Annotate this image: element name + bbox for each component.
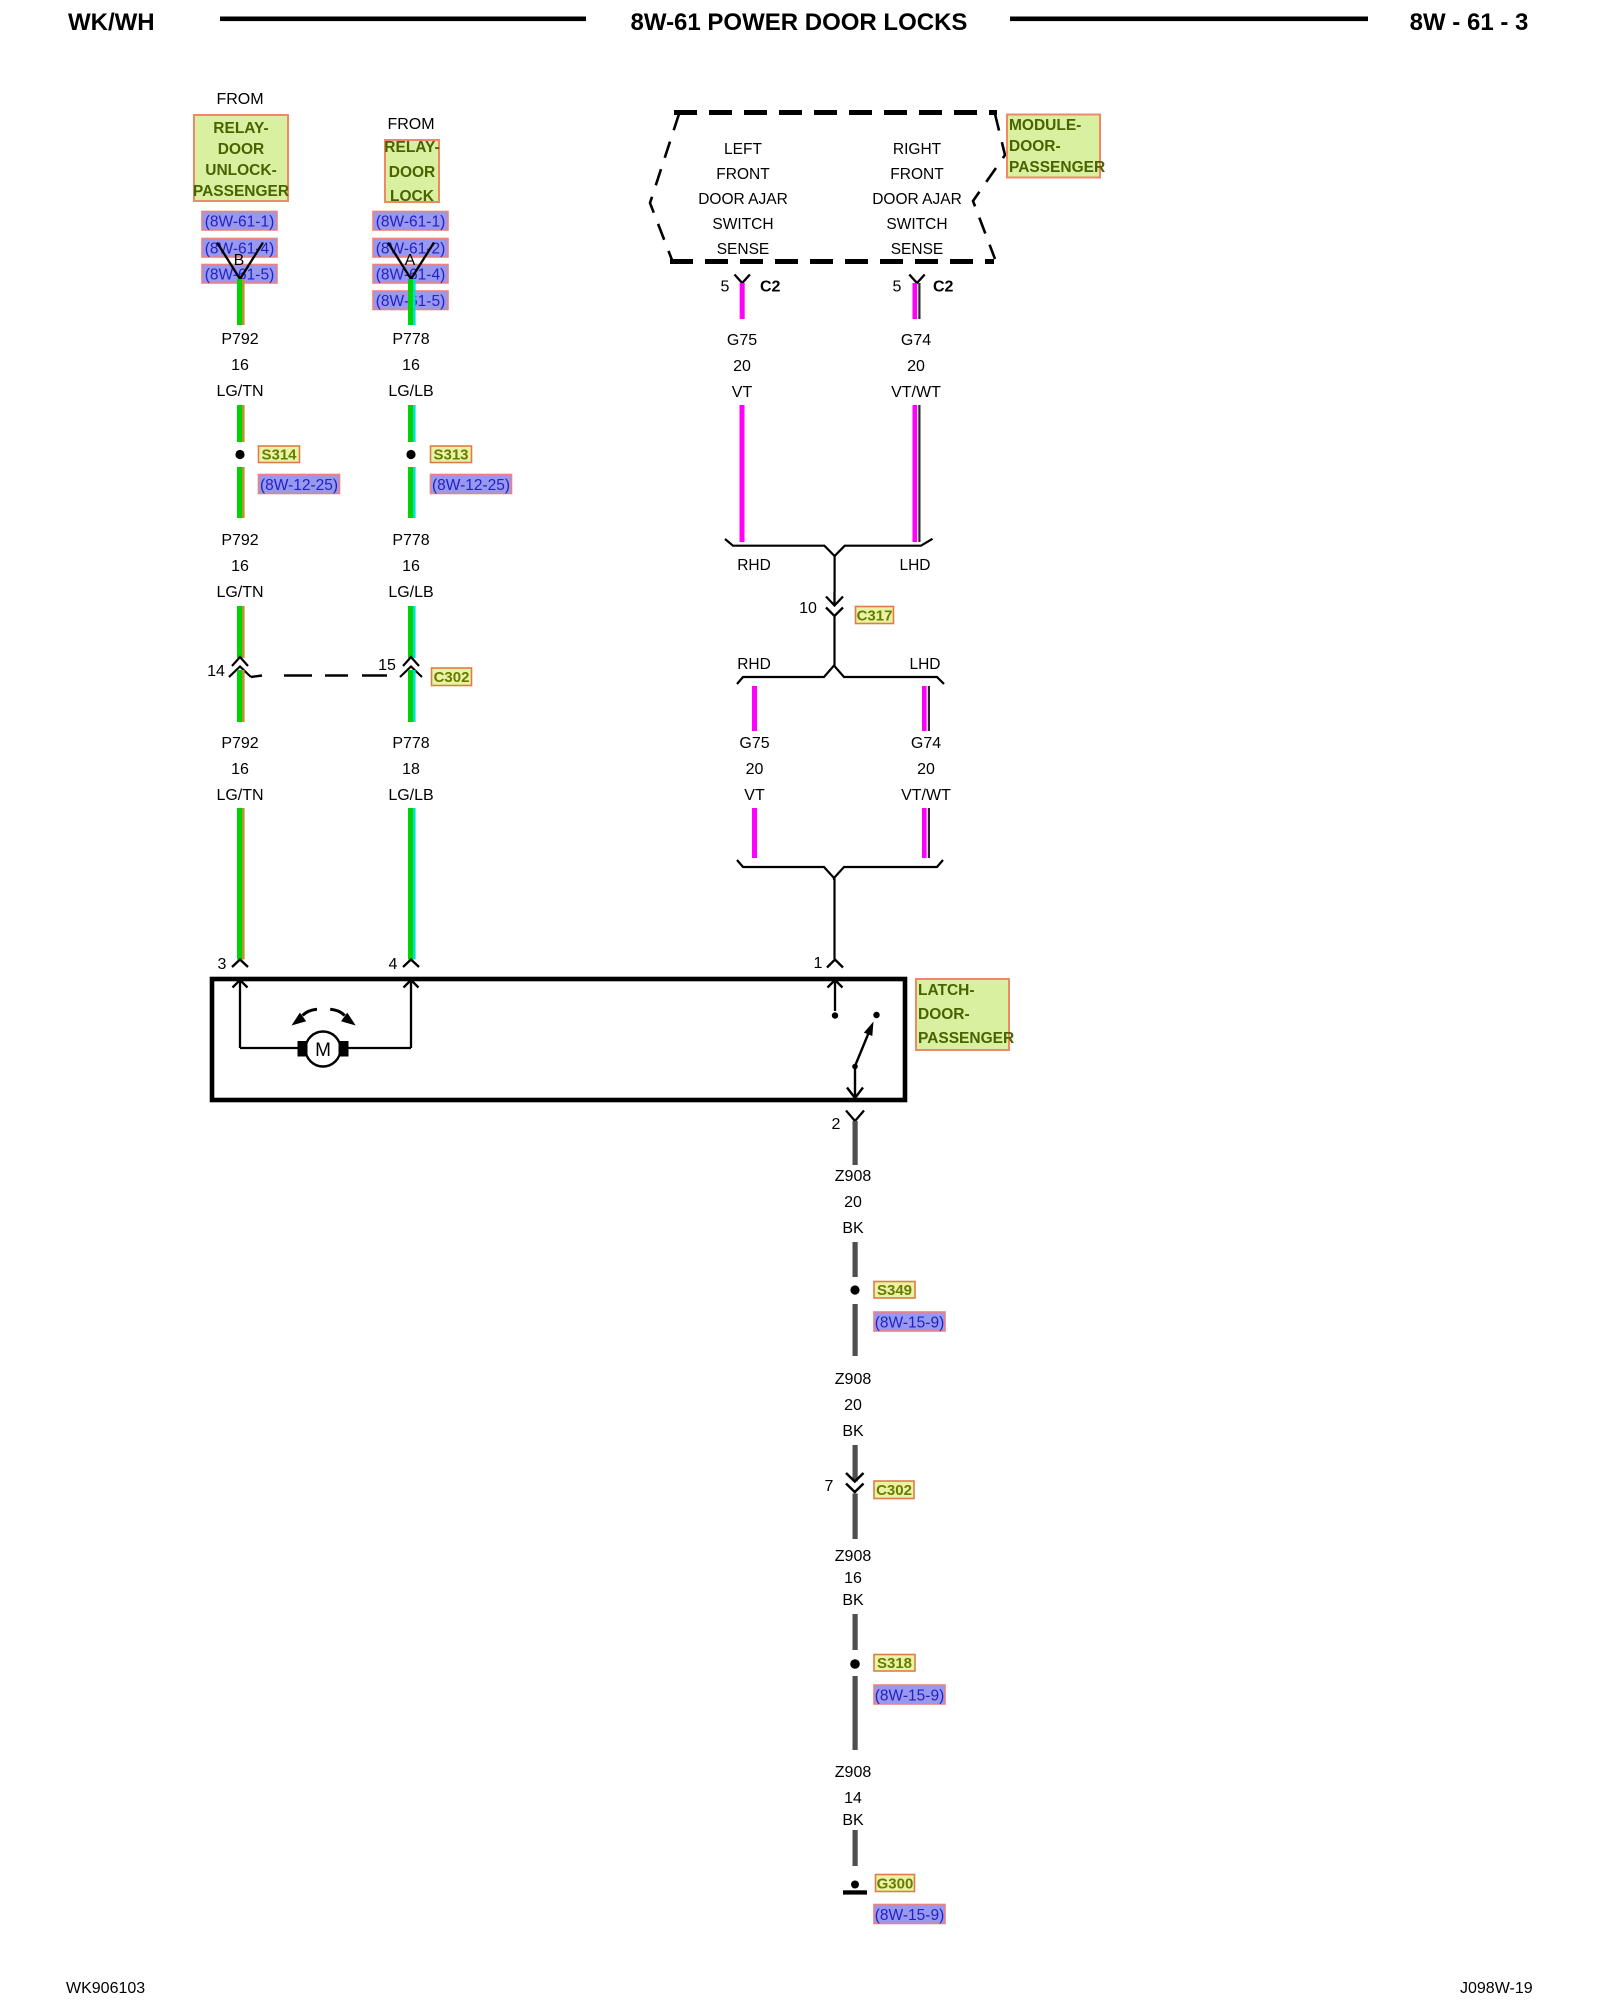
reference label (8W-12-25) A: [259, 475, 340, 495]
svg-text:RHD: RHD: [737, 656, 771, 673]
wire label G75 20 VT (1): [727, 332, 757, 401]
wire Z908 BK segment 2: [853, 1242, 858, 1277]
svg-text:10: 10: [799, 600, 817, 617]
off-page connector V with letter A: [388, 243, 434, 280]
svg-text:B: B: [234, 252, 245, 269]
svg-text:J098W-19: J098W-19: [1460, 1980, 1533, 1997]
svg-text:SENSE: SENSE: [891, 241, 944, 258]
svg-text:5: 5: [721, 279, 730, 296]
svg-text:(8W-61-1): (8W-61-1): [376, 214, 445, 231]
svg-text:VT: VT: [744, 787, 765, 804]
wire label P778 16 LG/LB (1): [388, 331, 433, 400]
svg-text:LHD: LHD: [899, 557, 930, 574]
reference label (8W-61-4) A: [202, 239, 277, 258]
reference label (8W-61-5) B: [373, 291, 448, 310]
svg-text:DOOR: DOOR: [389, 164, 436, 181]
svg-text:P792: P792: [221, 532, 258, 549]
wire G75 VT segment 4: [752, 808, 757, 858]
svg-text:P792: P792: [221, 735, 258, 752]
svg-text:C317: C317: [857, 608, 893, 625]
component box RELAY-DOOR-UNLOCK-PASSENGER: [193, 115, 289, 201]
reference label (8W-61-2) B: [373, 239, 448, 258]
svg-text:15: 15: [378, 657, 396, 674]
wire P792 LG/TN segment 6: [237, 808, 245, 960]
bus split brace lower (RHD/LHD): [737, 666, 944, 685]
svg-text:4: 4: [389, 956, 398, 973]
svg-text:20: 20: [746, 761, 764, 778]
svg-text:BK: BK: [842, 1220, 864, 1237]
svg-text:LHD: LHD: [909, 656, 940, 673]
svg-text:7: 7: [825, 1478, 834, 1495]
svg-text:FRONT: FRONT: [890, 166, 944, 183]
svg-text:20: 20: [844, 1194, 862, 1211]
svg-text:C2: C2: [933, 279, 954, 296]
svg-text:(8W-12-25): (8W-12-25): [260, 477, 338, 494]
svg-text:DOOR AJAR: DOOR AJAR: [872, 191, 962, 208]
svg-text:MODULE-: MODULE-: [1009, 117, 1081, 134]
latch pin 2 connector Y: [832, 1111, 864, 1134]
reference label (8W-15-9) 3: [874, 1905, 945, 1925]
wire label P792 16 LG/TN (3): [216, 735, 263, 804]
connector label C302 (left): [432, 668, 472, 686]
svg-text:UNLOCK-: UNLOCK-: [205, 162, 276, 179]
wire G74 VT/WT segment 3: [922, 686, 930, 731]
wire G74 VT/WT segment 1: [913, 283, 921, 319]
ground label G300: [876, 1875, 915, 1893]
reference label (8W-12-25) B: [431, 475, 512, 495]
wire P778 LG/LB segment 3: [408, 467, 416, 518]
svg-text:FROM: FROM: [216, 91, 263, 108]
svg-text:LG/LB: LG/LB: [388, 584, 433, 601]
svg-text:20: 20: [907, 358, 925, 375]
svg-text:16: 16: [231, 558, 249, 575]
wire P778 LG/LB segment 6: [408, 808, 416, 960]
latch internal arrow pin 4: [404, 980, 419, 1048]
svg-text:LG/TN: LG/TN: [216, 584, 263, 601]
wire Z908 BK segment 7: [853, 1676, 858, 1750]
svg-text:G74: G74: [911, 735, 941, 752]
latch internal arrow pin 3: [233, 980, 248, 1048]
svg-text:SWITCH: SWITCH: [712, 216, 773, 233]
module box right dashed edge: [973, 114, 1005, 259]
wire Z908 BK segment 5: [853, 1494, 858, 1540]
svg-text:(8W-15-9): (8W-15-9): [875, 1315, 944, 1332]
svg-text:DOOR AJAR: DOOR AJAR: [698, 191, 788, 208]
component box latch outline: [212, 979, 905, 1100]
reference label (8W-61-4) B: [373, 265, 448, 284]
svg-text:RELAY-: RELAY-: [384, 139, 439, 156]
splice label S318: [874, 1655, 915, 1673]
motor M symbol: [298, 1032, 349, 1067]
wire label Z908 20 BK (2): [835, 1371, 872, 1440]
latch pin 1 connector chevron: [814, 955, 843, 972]
wire single to latch pin 1: [833, 878, 836, 959]
splice label S314: [259, 446, 300, 464]
svg-text:16: 16: [402, 558, 420, 575]
latch internal arrow pin 1: [828, 980, 843, 1011]
ground G300 symbol: [843, 1881, 867, 1895]
wire P778 LG/LB segment 1: [408, 279, 416, 325]
header rule left: [220, 17, 586, 22]
wire label P792 16 LG/TN (2): [216, 532, 263, 601]
switch contact node dot left: [832, 1012, 838, 1018]
svg-text:16: 16: [402, 357, 420, 374]
svg-text:VT/WT: VT/WT: [891, 384, 941, 401]
svg-text:1: 1: [814, 955, 823, 972]
svg-text:LEFT: LEFT: [724, 141, 762, 158]
wire P778 LG/LB segment 5: [408, 670, 416, 722]
svg-text:DOOR-: DOOR-: [918, 1006, 970, 1023]
splice node S349 dot: [850, 1285, 859, 1294]
connector label C317: [856, 607, 894, 625]
svg-text:G74: G74: [901, 332, 931, 349]
splice node S313 dot: [406, 450, 415, 459]
svg-text:14: 14: [207, 663, 225, 680]
wire P792 LG/TN segment 1: [237, 279, 245, 325]
svg-text:M: M: [315, 1040, 331, 1061]
module pin 5 C2 connector (left): [721, 275, 781, 296]
module pin name LEFT FRONT DOOR AJAR SWITCH SENSE: [698, 141, 788, 258]
svg-text:BK: BK: [842, 1812, 864, 1829]
connector C317 pin 10 symbol: [799, 592, 843, 617]
splice node S318 dot: [850, 1659, 860, 1669]
svg-text:C302: C302: [434, 669, 470, 686]
wire P792 LG/TN segment 3: [237, 467, 245, 518]
wire Z908 BK segment 6: [853, 1614, 858, 1650]
wire label P778 18 LG/LB (3): [388, 735, 433, 804]
svg-text:C302: C302: [876, 1482, 912, 1499]
svg-text:LOCK: LOCK: [390, 188, 435, 205]
wire label G75 20 VT (2): [739, 735, 769, 804]
svg-text:18: 18: [402, 761, 420, 778]
svg-text:S313: S313: [433, 447, 468, 464]
wire motor leads: [240, 1047, 411, 1049]
svg-text:LG/TN: LG/TN: [216, 383, 263, 400]
module pin 5 C2 connector (right): [893, 275, 954, 296]
reference label (8W-61-1) A: [202, 212, 277, 231]
wire Z908 BK segment 8: [853, 1830, 858, 1866]
svg-text:2: 2: [832, 1116, 841, 1133]
component label LATCH-DOOR-PASSENGER: [916, 979, 1014, 1050]
wire P792 LG/TN segment 2: [237, 405, 245, 442]
connector C302 pin 14 symbol: [207, 657, 387, 680]
svg-text:20: 20: [733, 358, 751, 375]
wire P778 LG/LB segment 4: [408, 606, 416, 658]
wire label P778 16 LG/LB (2): [388, 532, 433, 601]
wire single from C317: [833, 616, 835, 666]
splice label S313: [431, 446, 472, 464]
svg-text:16: 16: [231, 761, 249, 778]
wire label Z908 16 BK: [835, 1548, 872, 1609]
svg-text:BK: BK: [842, 1592, 864, 1609]
header rule right: [1010, 17, 1368, 22]
svg-text:FROM: FROM: [387, 116, 434, 133]
svg-text:RIGHT: RIGHT: [893, 141, 942, 158]
svg-text:G75: G75: [739, 735, 769, 752]
wire G74 VT/WT segment 2: [913, 405, 921, 542]
wire label G74 20 VT/WT (1): [891, 332, 941, 401]
svg-text:WK/WH: WK/WH: [68, 9, 155, 36]
svg-text:BK: BK: [842, 1423, 864, 1440]
svg-text:FRONT: FRONT: [716, 166, 770, 183]
svg-text:16: 16: [231, 357, 249, 374]
svg-text:RHD: RHD: [737, 557, 771, 574]
svg-text:Z908: Z908: [835, 1168, 872, 1185]
off-page connector V with letter B: [217, 243, 263, 280]
svg-text:PASSENGER: PASSENGER: [1009, 159, 1105, 176]
bus merge brace bottom: [737, 860, 943, 878]
svg-text:8W - 61 - 3: 8W - 61 - 3: [1410, 9, 1529, 36]
wire label Z908 14 BK: [835, 1764, 872, 1829]
module box top dashed edge: [674, 110, 997, 115]
svg-text:SWITCH: SWITCH: [886, 216, 947, 233]
reference label (8W-15-9) 1: [874, 1312, 945, 1332]
component box RELAY-DOOR-LOCK: [384, 139, 439, 205]
svg-text:8W-61 POWER DOOR LOCKS: 8W-61 POWER DOOR LOCKS: [631, 9, 968, 36]
switch contact node dot right: [873, 1012, 879, 1018]
splice node S314 dot: [235, 450, 244, 459]
svg-text:20: 20: [917, 761, 935, 778]
svg-text:S314: S314: [261, 447, 297, 464]
svg-text:SENSE: SENSE: [717, 241, 770, 258]
wire label G74 20 VT/WT (2): [901, 735, 951, 804]
latch pin 3 connector chevron: [218, 956, 248, 973]
wire G75 VT segment 2: [740, 405, 745, 542]
svg-text:16: 16: [844, 1570, 862, 1587]
wire single to C317: [833, 556, 835, 592]
svg-text:LG/TN: LG/TN: [216, 787, 263, 804]
motor rotation arrows: [292, 1009, 356, 1025]
svg-text:(8W-61-1): (8W-61-1): [205, 214, 274, 231]
wire P792 LG/TN segment 4: [237, 606, 245, 658]
wire Z908 BK segment 3: [853, 1304, 858, 1356]
module box bottom dashed edge: [670, 259, 994, 264]
svg-text:(8W-15-9): (8W-15-9): [875, 1688, 944, 1705]
svg-text:14: 14: [844, 1790, 862, 1807]
wire P792 LG/TN segment 5: [237, 670, 245, 722]
reference label (8W-61-5) A: [202, 265, 277, 284]
wire Z908 BK segment 4 with arrow: [846, 1445, 864, 1482]
svg-text:5: 5: [893, 279, 902, 296]
svg-text:P792: P792: [221, 331, 258, 348]
wire Z908 BK segment 1: [853, 1121, 858, 1165]
svg-text:G300: G300: [877, 1876, 914, 1893]
module pin name RIGHT FRONT DOOR AJAR SWITCH SENSE: [872, 141, 962, 258]
svg-text:RELAY-: RELAY-: [213, 120, 268, 137]
svg-text:VT/WT: VT/WT: [901, 787, 951, 804]
module box left dashed edge: [650, 114, 679, 260]
svg-text:Z908: Z908: [835, 1548, 872, 1565]
svg-text:(8W-12-25): (8W-12-25): [432, 477, 510, 494]
svg-text:PASSENGER: PASSENGER: [918, 1030, 1014, 1047]
svg-text:LATCH-: LATCH-: [918, 982, 975, 999]
svg-text:S318: S318: [877, 1655, 912, 1672]
svg-text:LG/LB: LG/LB: [388, 383, 433, 400]
svg-text:S349: S349: [877, 1282, 912, 1299]
svg-text:WK906103: WK906103: [66, 1980, 145, 1997]
svg-text:DOOR: DOOR: [218, 141, 265, 158]
svg-text:C2: C2: [760, 279, 781, 296]
svg-text:A: A: [405, 252, 416, 269]
connector C302 pin 7 symbol: [825, 1478, 864, 1495]
svg-text:Z908: Z908: [835, 1371, 872, 1388]
reference label (8W-15-9) 2: [874, 1685, 945, 1705]
wire G75 VT segment 1: [740, 283, 745, 319]
wire label P792 16 LG/TN (1): [216, 331, 263, 400]
wire G74 VT/WT segment 4: [922, 808, 930, 858]
splice label S349: [874, 1282, 915, 1300]
svg-text:20: 20: [844, 1397, 862, 1414]
svg-text:Z908: Z908: [835, 1764, 872, 1781]
switch to pin 2 line with arrow: [847, 1066, 863, 1098]
wire P778 LG/LB segment 2: [408, 405, 416, 442]
svg-text:3: 3: [218, 956, 227, 973]
svg-text:LG/LB: LG/LB: [388, 787, 433, 804]
reference label (8W-61-1) B: [373, 212, 448, 231]
svg-text:(8W-15-9): (8W-15-9): [875, 1907, 944, 1924]
svg-text:P778: P778: [392, 331, 429, 348]
svg-text:G75: G75: [727, 332, 757, 349]
switch arm with arrowhead: [852, 1022, 873, 1070]
svg-text:P778: P778: [392, 532, 429, 549]
connector C302 pin 15 symbol: [378, 657, 422, 677]
svg-text:PASSENGER: PASSENGER: [193, 183, 289, 200]
svg-text:P778: P778: [392, 735, 429, 752]
svg-text:VT: VT: [732, 384, 753, 401]
bus merge brace upper (RHD/LHD): [725, 539, 933, 556]
latch pin 4 connector chevron: [389, 956, 419, 973]
wire label Z908 20 BK (1): [835, 1168, 872, 1237]
wire G75 VT segment 3: [752, 686, 757, 731]
svg-text:DOOR-: DOOR-: [1009, 138, 1061, 155]
connector label C302 (right): [874, 1481, 914, 1499]
component label MODULE-DOOR-PASSENGER: [1007, 115, 1105, 178]
